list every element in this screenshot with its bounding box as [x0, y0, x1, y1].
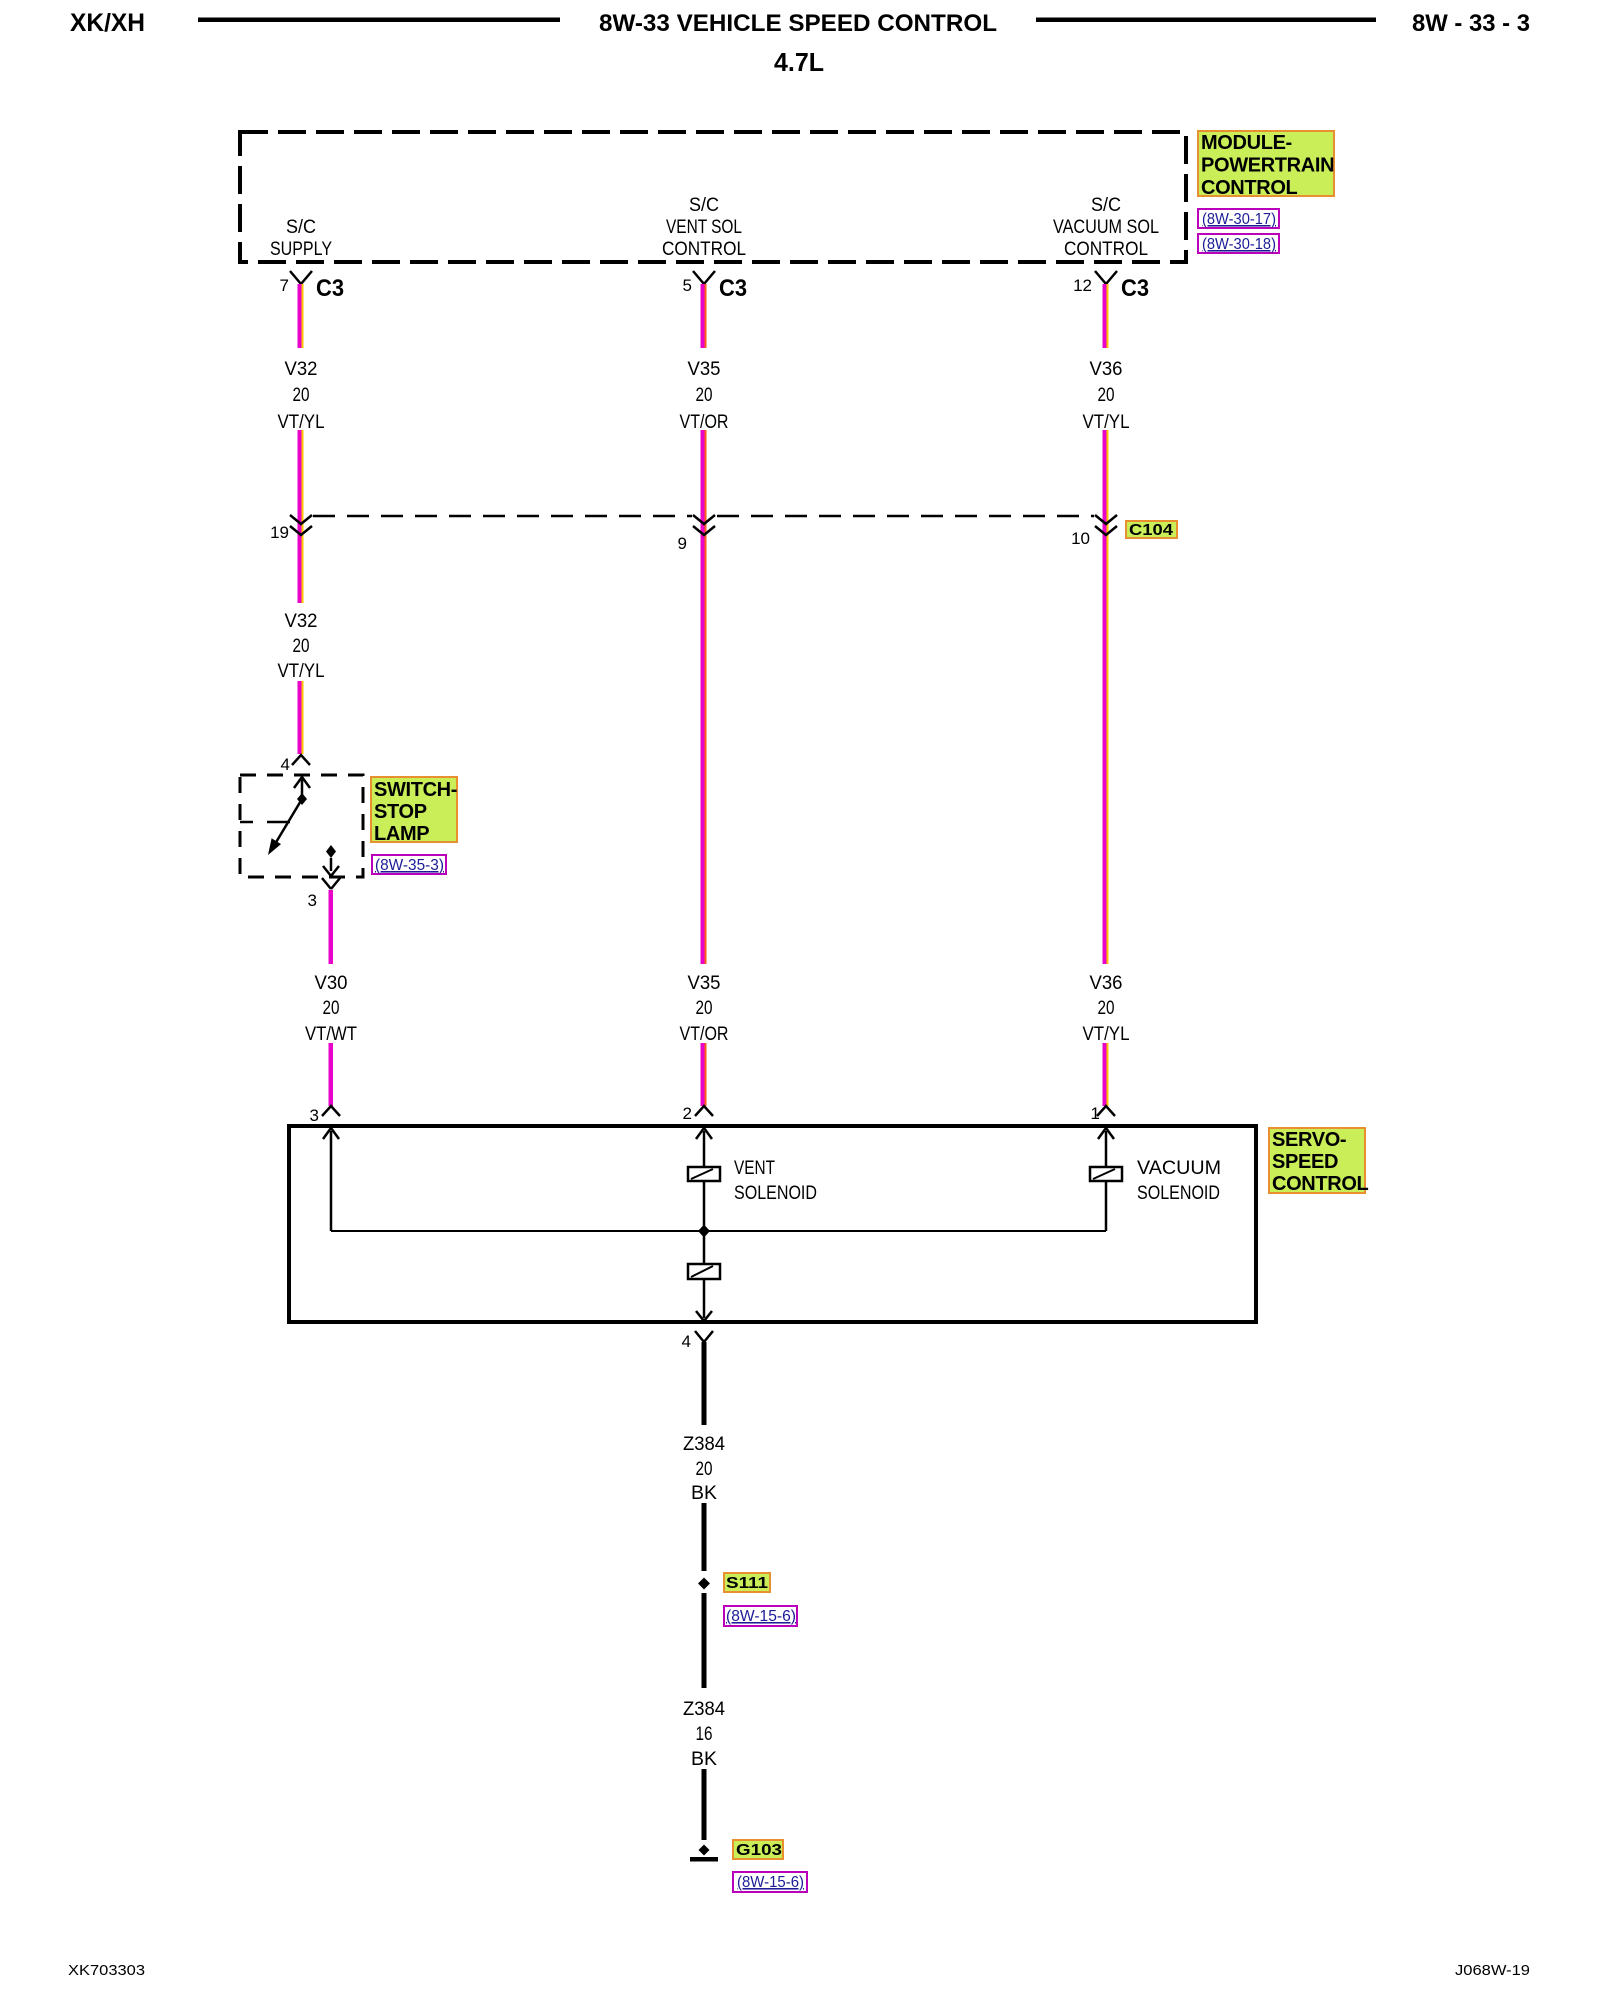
svg-text:2: 2 — [683, 1104, 692, 1123]
svg-text:10: 10 — [1071, 529, 1090, 548]
svg-text:SOLENOID: SOLENOID — [1137, 1182, 1220, 1204]
svg-text:(8W-15-6): (8W-15-6) — [737, 1874, 804, 1891]
svg-text:7: 7 — [280, 276, 289, 295]
svg-text:3: 3 — [310, 1106, 319, 1125]
svg-text:VT/WT: VT/WT — [305, 1023, 357, 1045]
svg-text:SOLENOID: SOLENOID — [734, 1182, 817, 1204]
svg-text:STOP: STOP — [374, 801, 427, 823]
svg-text:VT/YL: VT/YL — [1083, 411, 1130, 433]
svg-text:V30: V30 — [315, 972, 348, 994]
svg-text:Z384: Z384 — [683, 1698, 725, 1720]
svg-text:19: 19 — [270, 523, 289, 542]
svg-text:CONTROL: CONTROL — [1064, 238, 1148, 260]
svg-text:20: 20 — [323, 997, 340, 1019]
svg-text:SWITCH-: SWITCH- — [374, 779, 457, 801]
svg-text:(8W-35-3): (8W-35-3) — [375, 857, 444, 874]
svg-text:XK/XH: XK/XH — [70, 9, 145, 37]
svg-text:C104: C104 — [1129, 522, 1173, 539]
svg-text:S111: S111 — [726, 1575, 768, 1592]
svg-text:20: 20 — [293, 635, 310, 657]
svg-text:V32: V32 — [285, 358, 318, 380]
svg-text:G103: G103 — [736, 1842, 782, 1859]
svg-text:Z384: Z384 — [683, 1433, 725, 1455]
svg-text:S/C: S/C — [689, 194, 719, 216]
svg-text:V35: V35 — [688, 358, 721, 380]
svg-text:4.7L: 4.7L — [774, 47, 824, 77]
svg-text:20: 20 — [1098, 384, 1115, 406]
svg-text:SERVO-: SERVO- — [1272, 1129, 1346, 1151]
svg-text:VT/YL: VT/YL — [278, 411, 325, 433]
svg-text:VT/OR: VT/OR — [680, 1023, 729, 1045]
svg-text:5: 5 — [683, 276, 692, 295]
svg-text:C3: C3 — [316, 275, 344, 302]
svg-text:20: 20 — [696, 997, 713, 1019]
svg-text:V36: V36 — [1090, 972, 1123, 994]
svg-text:20: 20 — [696, 1458, 713, 1480]
svg-text:VACUUM SOL: VACUUM SOL — [1053, 216, 1159, 238]
svg-text:S/C: S/C — [1091, 194, 1121, 216]
svg-text:V35: V35 — [688, 972, 721, 994]
svg-text:XK703303: XK703303 — [68, 1962, 145, 1979]
svg-text:4: 4 — [281, 755, 290, 774]
svg-text:1: 1 — [1091, 1104, 1100, 1123]
svg-text:8W-33 VEHICLE SPEED CONTROL: 8W-33 VEHICLE SPEED CONTROL — [599, 10, 997, 37]
svg-text:C3: C3 — [1121, 275, 1149, 302]
svg-text:BK: BK — [691, 1482, 717, 1504]
svg-text:20: 20 — [696, 384, 713, 406]
svg-text:LAMP: LAMP — [374, 823, 429, 845]
svg-text:3: 3 — [308, 891, 317, 910]
svg-text:SUPPLY: SUPPLY — [270, 238, 332, 260]
svg-text:4: 4 — [682, 1332, 691, 1351]
svg-text:BK: BK — [691, 1748, 717, 1770]
svg-text:CONTROL: CONTROL — [1272, 1173, 1369, 1195]
svg-text:V36: V36 — [1090, 358, 1123, 380]
svg-text:20: 20 — [293, 384, 310, 406]
svg-text:16: 16 — [696, 1723, 713, 1745]
svg-text:J068W-19: J068W-19 — [1455, 1962, 1530, 1979]
svg-text:V32: V32 — [285, 610, 318, 632]
svg-text:VENT SOL: VENT SOL — [666, 216, 742, 238]
svg-text:VT/YL: VT/YL — [278, 660, 325, 682]
svg-text:VT/OR: VT/OR — [680, 411, 729, 433]
svg-text:(8W-30-17): (8W-30-17) — [1202, 211, 1276, 228]
svg-text:MODULE-: MODULE- — [1201, 132, 1292, 154]
svg-text:VACUUM: VACUUM — [1137, 1157, 1221, 1179]
svg-text:POWERTRAIN: POWERTRAIN — [1201, 155, 1334, 177]
svg-text:12: 12 — [1073, 276, 1092, 295]
svg-text:(8W-30-18): (8W-30-18) — [1202, 236, 1276, 253]
svg-text:S/C: S/C — [286, 216, 316, 238]
svg-text:VT/YL: VT/YL — [1083, 1023, 1130, 1045]
svg-text:(8W-15-6): (8W-15-6) — [726, 1608, 796, 1625]
svg-text:8W - 33 - 3: 8W - 33 - 3 — [1412, 10, 1530, 37]
svg-text:SPEED: SPEED — [1272, 1151, 1338, 1173]
svg-text:9: 9 — [678, 534, 687, 553]
svg-text:C3: C3 — [719, 275, 747, 302]
svg-text:CONTROL: CONTROL — [1201, 177, 1298, 199]
svg-text:CONTROL: CONTROL — [662, 238, 746, 260]
svg-text:VENT: VENT — [734, 1157, 775, 1179]
svg-text:20: 20 — [1098, 997, 1115, 1019]
